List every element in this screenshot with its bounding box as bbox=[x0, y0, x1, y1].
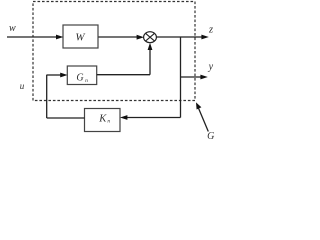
svg-text:n: n bbox=[107, 119, 110, 125]
svg-text:z: z bbox=[208, 25, 213, 36]
svg-text:K: K bbox=[98, 113, 107, 124]
svg-text:u: u bbox=[20, 81, 25, 91]
svg-text:G: G bbox=[76, 73, 83, 84]
svg-text:G: G bbox=[207, 131, 214, 142]
svg-text:W: W bbox=[75, 31, 85, 43]
svg-text:n: n bbox=[85, 78, 88, 84]
svg-text:y: y bbox=[208, 62, 214, 73]
svg-text:w: w bbox=[9, 23, 16, 34]
